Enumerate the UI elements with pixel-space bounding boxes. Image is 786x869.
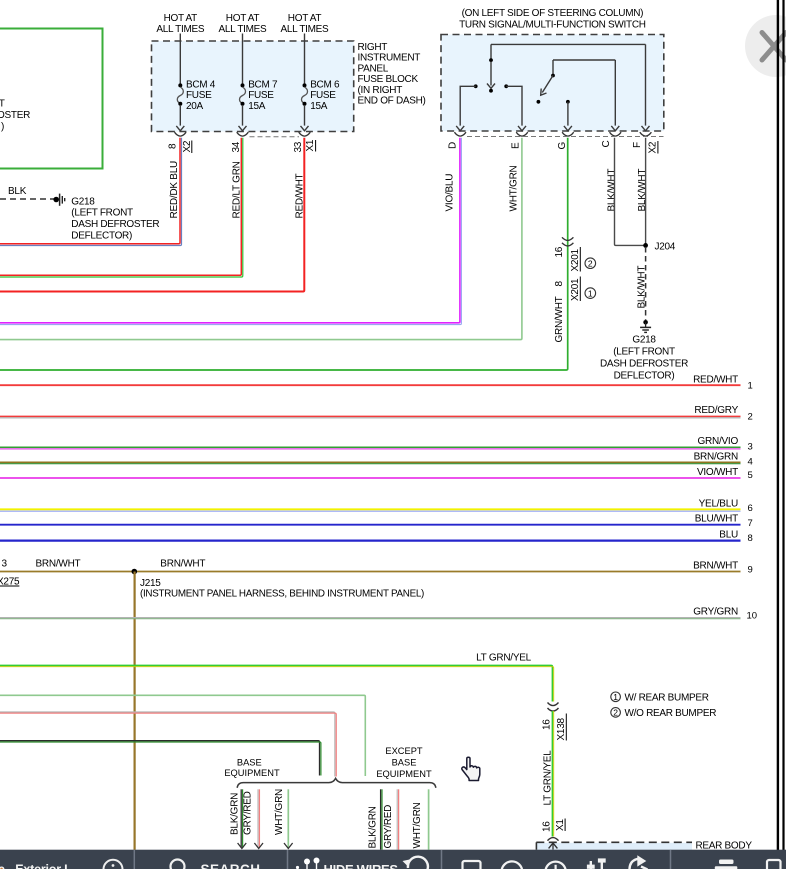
wire RED/DK BLU (0, 138, 182, 246)
svg-text:C: C (601, 141, 612, 148)
hide wires icon and label (296, 866, 299, 869)
svg-text:DASH DEFROSTER: DASH DEFROSTER (71, 219, 159, 230)
svg-text:FUSE: FUSE (186, 90, 212, 101)
wire LT GRN/YEL (0, 653, 554, 702)
EXCEPT BASE EQUIPMENT label (376, 746, 432, 779)
svg-text:20A: 20A (186, 101, 204, 112)
search icon and label (171, 860, 185, 869)
wire BLK/WHT (pin C) (606, 138, 645, 246)
wire BLK (dashed) to ground (0, 186, 54, 199)
group 1 wire WHT/GRN (274, 789, 293, 849)
cursor (462, 757, 480, 780)
group 1 wire BLK/GRN (229, 789, 246, 848)
REAR BODY box (partial) (536, 841, 752, 852)
group 2 wire BLK/GRN (367, 789, 382, 849)
svg-text:3: 3 (748, 442, 753, 453)
svg-text:4: 4 (748, 457, 753, 468)
svg-text:RED/WHT: RED/WHT (693, 375, 738, 386)
share icon (630, 859, 639, 869)
svg-text:SEARCH: SEARCH (201, 862, 261, 869)
svg-text:F: F (632, 142, 643, 148)
svg-text:HOT AT: HOT AT (164, 13, 198, 24)
svg-text:8: 8 (748, 533, 753, 544)
svg-text:RED/DK BLU: RED/DK BLU (169, 161, 180, 219)
svg-text:BASE: BASE (392, 757, 417, 767)
tab label Exterior L (0, 867, 4, 869)
svg-text:ALL TIMES: ALL TIMES (156, 24, 205, 35)
svg-text:8: 8 (554, 281, 565, 287)
svg-text:RED/GRY: RED/GRY (694, 405, 738, 416)
svg-text:WHT/GRN: WHT/GRN (508, 165, 519, 211)
wire LT GRN/YEL lower (541, 711, 566, 837)
fuse BCM 4 20A (176, 34, 216, 131)
svg-text:(IN RIGHT: (IN RIGHT (358, 85, 403, 96)
svg-text:BCM 7: BCM 7 (248, 80, 278, 91)
svg-text:1: 1 (748, 381, 753, 392)
svg-text:7: 7 (748, 518, 753, 529)
svg-text:BCM 4: BCM 4 (186, 80, 216, 91)
wire 6 YEL/BLU (0, 499, 753, 515)
svg-text:BRN/WHT: BRN/WHT (693, 561, 738, 572)
connector X1 at rear body (548, 838, 559, 841)
wire 10 GRY/GRN (0, 607, 757, 622)
svg-text:FUSE: FUSE (248, 90, 274, 101)
svg-text:(ON LEFT SIDE OF STEERING COLU: (ON LEFT SIDE OF STEERING COLUMN) (462, 8, 644, 19)
svg-text:X201: X201 (570, 278, 581, 301)
svg-text:GRN/WHT: GRN/WHT (554, 296, 565, 342)
wire BLK/WHT dashed to ground (637, 247, 648, 320)
wire 5 VIO/WHT (0, 467, 753, 481)
svg-text:16: 16 (554, 246, 565, 257)
svg-text:BRN/WHT: BRN/WHT (36, 559, 81, 570)
svg-text:BLU: BLU (719, 530, 738, 541)
svg-text:BRN/GRN: BRN/GRN (694, 452, 738, 463)
svg-text:(LEFT FRONT: (LEFT FRONT (71, 208, 133, 219)
svg-text:W/ REAR BUMPER: W/ REAR BUMPER (625, 693, 709, 704)
right switch blade (542, 76, 553, 93)
svg-text:E: E (511, 142, 522, 149)
svg-text:): ) (1, 122, 4, 133)
left switch contact to pin E (504, 84, 508, 88)
svg-text:3: 3 (2, 559, 8, 570)
wire 9 BRN/WHT with J215 (0, 559, 753, 588)
svg-text:DEFLECTOR): DEFLECTOR) (71, 231, 132, 242)
wire 2 RED/GRY (0, 405, 753, 423)
wire from pin C to right switch common (553, 59, 615, 61)
svg-text:5: 5 (748, 470, 753, 481)
fuse BCM 7 15A (239, 34, 279, 131)
svg-text:G218: G218 (632, 334, 656, 345)
svg-text:X138: X138 (556, 717, 567, 740)
wire BLK/WHT (pin F) (637, 138, 648, 246)
svg-text:10: 10 (747, 611, 758, 622)
note 1 W/ REAR BUMPER (611, 692, 709, 704)
group 2 wire GRY/RED (383, 789, 399, 849)
svg-text:END OF DASH): END OF DASH) (358, 96, 426, 107)
wire VIO/BLU (0, 138, 461, 325)
svg-text:X2: X2 (182, 140, 193, 152)
wire 3 GRN/VIO (0, 436, 753, 453)
svg-text:2: 2 (748, 412, 753, 423)
svg-text:J204: J204 (655, 242, 676, 253)
connector X201 on GRN/WHT (554, 237, 596, 301)
svg-text:DEFLECTOR): DEFLECTOR) (614, 370, 675, 381)
svg-text:GRY/GRN: GRY/GRN (693, 607, 738, 618)
svg-text:BLK/GRN: BLK/GRN (229, 793, 240, 835)
printer icon (719, 860, 734, 865)
svg-text:EQUIPMENT: EQUIPMENT (224, 768, 280, 778)
svg-text:16: 16 (541, 821, 552, 832)
svg-text:WHT/GRN: WHT/GRN (274, 789, 285, 835)
svg-text:J215: J215 (140, 578, 161, 589)
svg-text:6: 6 (748, 503, 753, 514)
svg-text:G218: G218 (71, 196, 95, 207)
svg-text:8: 8 (167, 143, 178, 149)
svg-text:BRN/WHT: BRN/WHT (160, 559, 205, 570)
component box (partial, left edge) (0, 29, 103, 169)
toolbar (0, 850, 786, 869)
svg-text:INSTRUMENT: INSTRUMENT (358, 53, 421, 64)
pin 34 label (231, 141, 242, 152)
svg-text:2: 2 (588, 258, 593, 268)
switch internals (456, 44, 649, 130)
svg-text:1: 1 (613, 692, 618, 702)
svg-text:HOT AT: HOT AT (288, 13, 322, 24)
svg-text:X201: X201 (570, 248, 581, 271)
svg-text:T: T (0, 99, 5, 110)
svg-text:GRN/VIO: GRN/VIO (698, 436, 739, 447)
left switch contact to pin D (474, 84, 478, 88)
svg-text:G: G (557, 142, 568, 150)
svg-text:(LEFT FRONT: (LEFT FRONT (613, 346, 675, 357)
svg-text:RIGHT: RIGHT (358, 42, 388, 53)
svg-text:W/O REAR BUMPER: W/O REAR BUMPER (625, 708, 717, 719)
right switch contact to pin G (566, 100, 570, 104)
svg-text:15A: 15A (310, 101, 328, 112)
svg-text:e - Exterior L: e - Exterior L (0, 863, 72, 869)
brace (237, 778, 436, 787)
svg-text:FUSE BLOCK: FUSE BLOCK (358, 74, 419, 85)
wire BLK/GRN feeder (bottom) (0, 741, 321, 776)
svg-text:HIDE WIRES: HIDE WIRES (324, 862, 399, 869)
svg-text:YEL/BLU: YEL/BLU (699, 499, 738, 510)
note 2 W/O REAR BUMPER (611, 707, 716, 719)
svg-text:BCM 6: BCM 6 (310, 80, 340, 91)
svg-text:BASE: BASE (237, 757, 262, 767)
wire WHT/GRN feeder (bottom) (0, 695, 365, 776)
svg-text:WHT/GRN: WHT/GRN (412, 802, 423, 848)
rectangle tool icon (463, 861, 481, 869)
svg-text:FUSE: FUSE (310, 90, 336, 101)
svg-text:GRY/RED: GRY/RED (383, 805, 394, 849)
group 2 wire WHT/GRN (412, 789, 429, 849)
svg-text:15A: 15A (248, 101, 266, 112)
svg-text:VIO/BLU: VIO/BLU (445, 174, 456, 212)
svg-text:X1: X1 (555, 819, 566, 831)
junction J204 (643, 242, 676, 253)
wire GRY/RED feeder (bottom) (0, 712, 336, 777)
fuse block box (RIGHT INSTRUMENT PANEL FUSE BLOCK) (152, 41, 426, 132)
svg-text:GRY/RED: GRY/RED (243, 791, 254, 835)
switch pin labels D E G C F X2 (448, 141, 659, 154)
svg-text:HOT AT: HOT AT (226, 13, 260, 24)
svg-text:EQUIPMENT: EQUIPMENT (376, 769, 432, 779)
connector X138 (541, 703, 567, 741)
svg-text:TURN SIGNAL/MULTI-FUNCTION SWI: TURN SIGNAL/MULTI-FUNCTION SWITCH (459, 20, 646, 31)
svg-text:34: 34 (231, 141, 242, 152)
ground G218 right (600, 320, 688, 381)
wire WHT/GRN (pin E) (0, 138, 522, 340)
BASE EQUIPMENT label (224, 757, 280, 778)
svg-text:BLK/WHT: BLK/WHT (606, 169, 617, 212)
svg-text:DASH DEFROSTER: DASH DEFROSTER (600, 358, 688, 369)
turn signal/multi-function switch box (441, 8, 664, 131)
info icon (104, 860, 123, 869)
svg-text:VIO/WHT: VIO/WHT (697, 467, 738, 478)
svg-text:LT GRN/YEL: LT GRN/YEL (476, 653, 532, 664)
wire 8 BLU (0, 530, 753, 545)
svg-text:X1: X1 (305, 139, 316, 151)
wire RED/LT GRN (0, 138, 243, 277)
wire 7 BLU/WHT (0, 514, 753, 530)
group 1 wire GRY/RED (243, 789, 263, 848)
svg-text:9: 9 (748, 565, 753, 576)
ground G218 left (53, 194, 159, 242)
fuse block pin connectors (175, 132, 311, 137)
svg-text:BLU/WHT: BLU/WHT (695, 514, 738, 525)
svg-text:2: 2 (613, 707, 618, 717)
wire GRN/WHT (pin G) (0, 138, 568, 370)
svg-text:X2: X2 (647, 141, 658, 153)
fuse BCM 6 15A (301, 34, 341, 131)
svg-text:BLK/GRN: BLK/GRN (367, 806, 378, 848)
svg-text:X275: X275 (0, 577, 20, 588)
clock icon (545, 862, 565, 869)
wire 1 RED/WHT (0, 375, 753, 392)
svg-text:(INSTRUMENT PANEL HARNESS, BEH: (INSTRUMENT PANEL HARNESS, BEHIND INSTRU… (140, 589, 424, 600)
wire RED/WHT (fuse 3) (0, 138, 305, 292)
circle tool icon (502, 861, 523, 869)
wire 4 BRN/GRN (0, 452, 753, 468)
svg-text:BLK: BLK (8, 186, 27, 197)
close button (745, 15, 786, 77)
svg-text:ALL TIMES: ALL TIMES (281, 24, 330, 35)
page edge lines (778, 0, 784, 850)
left switch common node (490, 44, 492, 59)
svg-text:PANEL: PANEL (358, 63, 389, 74)
svg-text:OSTER: OSTER (0, 110, 30, 121)
frame icon (767, 860, 781, 869)
wire from pin F to left switch common (491, 43, 646, 45)
pin 8 / X2 labels (167, 140, 193, 153)
svg-text:ALL TIMES: ALL TIMES (219, 24, 268, 35)
undo icon (408, 857, 428, 869)
pin 33 / X1 labels (293, 139, 316, 152)
wire BRN/WHT vertical from J215 (134, 572, 136, 850)
svg-text:D: D (448, 142, 459, 149)
junction J215 (132, 569, 425, 600)
sliders icon (590, 861, 592, 869)
svg-text:EXCEPT: EXCEPT (385, 746, 423, 756)
right switch open contact (537, 100, 541, 104)
svg-text:16: 16 (541, 719, 552, 730)
svg-text:1: 1 (588, 288, 593, 298)
switch pin connectors (454, 132, 663, 136)
svg-text:33: 33 (293, 141, 304, 152)
HOT AT ALL TIMES labels (156, 13, 329, 35)
